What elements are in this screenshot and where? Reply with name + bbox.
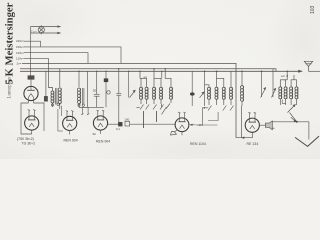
svg-text:(750 3b≈2): (750 3b≈2): [17, 137, 34, 141]
tuning arrow 4: [272, 69, 276, 98]
svg-text:a b: a b: [144, 75, 148, 79]
svg-text:REN: REN: [197, 123, 203, 127]
mains tap labels: [16, 39, 25, 65]
wire V1 left leg: [21, 100, 32, 134]
heater drop wires: [58, 106, 63, 131]
fuse Si: [28, 76, 34, 80]
choke terminals: [78, 104, 85, 106]
speaker symbol: [259, 121, 274, 130]
transformer terminals: [51, 103, 59, 106]
tube V4: [93, 110, 107, 134]
svg-text:110v≈: 110v≈: [16, 57, 24, 61]
bus 125: [24, 53, 88, 64]
IF group 1: [137, 69, 164, 128]
bus 220: [24, 41, 41, 47]
choke Dr: [77, 88, 80, 104]
coil C2: [284, 87, 287, 99]
group1 top ties: [141, 78, 147, 87]
secondary lead up: [59, 69, 61, 87]
svg-text:220v≈: 220v≈: [16, 39, 25, 43]
switch arm to earth node: [290, 113, 297, 122]
corner wire left of switch: [282, 100, 286, 104]
resistor R1: [44, 96, 47, 101]
primary winding: [51, 91, 54, 103]
svg-text:50: 50: [93, 89, 97, 93]
group3 bottoms: [279, 99, 281, 105]
leads down: [52, 103, 54, 107]
coupling network: [108, 121, 176, 126]
group1 bottoms: [140, 99, 142, 104]
electrolytic blob: [105, 71, 107, 107]
oscillator coil L2: [165, 69, 172, 109]
wire V1 right leg: [34, 100, 44, 131]
tube V5: [171, 112, 189, 135]
primary lead: [49, 58, 53, 91]
group2 bottoms: [208, 99, 210, 105]
group2 ties: [205, 85, 209, 88]
svg-text:REN 1104: REN 1104: [190, 142, 206, 146]
coil B1: [207, 87, 210, 99]
node with blob: [191, 71, 193, 106]
svg-text:90: 90: [93, 132, 97, 136]
trimmer contacts g1: [140, 105, 144, 110]
IF group 2: [205, 71, 234, 110]
choke lead top: [78, 71, 80, 87]
misc verticals: [144, 111, 157, 128]
antenna symbol: [308, 66, 310, 71]
arrow lamp bottom: [57, 32, 61, 34]
group3 ties: [280, 80, 285, 87]
junction dots chassis: [78, 68, 288, 77]
earth symbol: [295, 136, 319, 146]
tube labels: [17, 137, 258, 146]
node lamp bottom: [40, 32, 42, 34]
wire tube V1 top feed: [30, 76, 32, 80]
node on AVC: [204, 107, 206, 109]
grid cap below: [171, 132, 177, 136]
tuning arrow 2: [200, 71, 205, 106]
svg-text:REN 904: REN 904: [64, 139, 78, 143]
core: [55, 88, 57, 105]
lamp La: [38, 27, 44, 33]
antenna arrow: [298, 70, 303, 73]
bus L4 long: [22, 63, 236, 137]
wire core drop: [87, 71, 89, 104]
svg-text:7 v ≈: 7 v ≈: [31, 29, 37, 33]
tube V6: [236, 112, 259, 137]
bus L6 chassis: [20, 70, 300, 72]
svg-text:5 K Meistersinger: 5 K Meistersinger: [3, 2, 15, 84]
coil B2: [215, 87, 218, 99]
coil B4: [229, 87, 232, 99]
secondary winding: [58, 88, 61, 104]
coil A4: [159, 87, 162, 99]
svg-text:0,1: 0,1: [116, 127, 120, 131]
coil A3: [152, 87, 155, 99]
arrow into V5: [191, 124, 196, 126]
AVC wiring near V5: [200, 108, 219, 125]
wires to earth: [275, 117, 309, 139]
wire lamp top line: [31, 26, 61, 28]
svg-text:100: 100: [124, 117, 129, 121]
V6 bottom wire: [236, 132, 252, 137]
bus 110: [24, 57, 49, 59]
wire lamp bottom line: [31, 32, 61, 34]
svg-text:2v≈: 2v≈: [17, 62, 22, 66]
wire lamp dropper: [30, 27, 32, 76]
svg-text:150v≈: 150v≈: [16, 45, 25, 49]
svg-text:a,b: a,b: [281, 74, 285, 78]
group1 feeds: [139, 71, 141, 78]
node lamp top: [40, 26, 42, 28]
power transformer Tr: [44, 58, 61, 109]
wire V2 bottom: [31, 130, 33, 134]
tube V1: [24, 86, 38, 100]
svg-text:RE 134: RE 134: [247, 142, 259, 146]
tube V2: [25, 116, 39, 130]
svg-text:REN 904: REN 904: [96, 140, 110, 144]
coil C4: [295, 87, 298, 99]
capacitor blob fill: [104, 78, 108, 82]
capacitor C1: [94, 93, 100, 95]
svg-text:TG 3b≈2: TG 3b≈2: [22, 142, 36, 146]
coil C1: [279, 87, 282, 99]
arrow lamp top: [57, 25, 61, 27]
coil B3: [222, 87, 225, 99]
arrow on V6 bottom: [241, 137, 244, 139]
detector coil L3: [240, 71, 243, 137]
grid stoppers between V3 V4: [81, 107, 89, 115]
tuning arrow 1: [128, 71, 130, 97]
coil C3: [290, 87, 293, 99]
wave switch arrow: [288, 105, 295, 113]
small circle cap: [107, 91, 110, 94]
switch S1: [162, 104, 167, 115]
IF group 3: [279, 71, 298, 105]
svg-text:103: 103: [310, 5, 316, 14]
coupling cap column: [116, 69, 121, 123]
wire continues right: [309, 70, 320, 72]
coil A2: [145, 87, 148, 99]
tube V2 pins: [28, 110, 30, 119]
bus L5 long: [20, 69, 276, 72]
bus 150: [24, 47, 121, 64]
svg-text:125v≈: 125v≈: [16, 51, 25, 55]
tuning arrow 3: [261, 71, 266, 97]
filter section: [77, 71, 106, 107]
coil A1: [139, 87, 142, 99]
tube V3: [63, 111, 77, 135]
